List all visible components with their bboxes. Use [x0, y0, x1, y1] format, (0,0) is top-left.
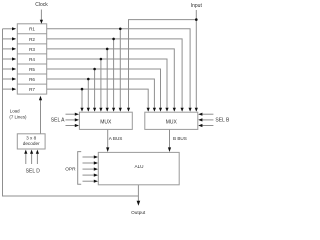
junction node R3/MUXA — [106, 48, 109, 51]
arrowhead B BUS into ALU — [168, 147, 171, 152]
wire register R4 input — [3, 58, 13, 60]
wire R4 branch to MUX A — [100, 59, 102, 111]
svg-text:R5: R5 — [29, 67, 35, 72]
junction node R1/MUXA — [119, 28, 122, 31]
wire register R3 input — [3, 48, 13, 50]
wire Input branch to MUX A — [129, 20, 197, 111]
junction node R6/MUXA — [87, 78, 90, 81]
wire R2 branch to MUX A — [113, 39, 115, 111]
svg-text:Load: Load — [10, 109, 20, 114]
wire R4 output to MUX B — [47, 59, 167, 111]
junction node R4/MUXA — [100, 58, 103, 61]
wire register R5 input — [3, 68, 13, 70]
wire decoder to register R7 load — [40, 100, 42, 134]
wire register R1 input — [3, 28, 13, 30]
arrowhead Output — [137, 201, 141, 206]
svg-text:R7: R7 — [29, 87, 35, 92]
wire R6 output to MUX B — [47, 79, 155, 111]
svg-text:R4: R4 — [29, 57, 35, 62]
wire R3 output to MUX B — [47, 49, 175, 111]
svg-text:SEL D: SEL D — [26, 168, 41, 174]
wire R5 branch to MUX A — [94, 69, 96, 111]
svg-text:B BUS: B BUS — [173, 136, 187, 141]
svg-text:MUX: MUX — [100, 119, 112, 125]
junction node R7/MUXA — [81, 88, 84, 91]
wire register R6 input — [3, 78, 13, 80]
wire SEL D lines — [25, 153, 27, 164]
3x8 decoder box U4 — [17, 134, 45, 149]
wire R5 output to MUX B — [47, 69, 161, 111]
MUX A box U1 — [79, 112, 132, 129]
svg-text:Input: Input — [191, 3, 203, 9]
junction node Input branch — [195, 18, 198, 21]
wire R3 branch to MUX A — [106, 49, 108, 111]
svg-text:3 x 8: 3 x 8 — [26, 135, 37, 140]
svg-text:ALU: ALU — [134, 164, 144, 169]
svg-text:R6: R6 — [29, 77, 35, 82]
arrowheads SEL B into MUX B — [198, 113, 202, 116]
ALU box U3 — [98, 152, 179, 184]
OPR bracket — [78, 152, 82, 185]
wire clock line — [40, 10, 42, 21]
register file box R1-R7 — [17, 24, 46, 94]
wire A BUS — [107, 129, 109, 148]
wire ALU output — [137, 185, 139, 201]
wire R1 branch to MUX A — [119, 29, 121, 111]
wire SEL A lines — [66, 113, 77, 115]
wire left feedback bus — [3, 29, 139, 196]
wire OPR lines — [83, 156, 96, 158]
svg-text:SEL B: SEL B — [215, 118, 230, 124]
junction node R2/MUXA — [112, 38, 115, 41]
svg-text:SEL A: SEL A — [51, 118, 65, 124]
MUX B box U2 — [145, 112, 198, 129]
svg-text:Clock: Clock — [35, 2, 48, 8]
svg-text:MUX: MUX — [166, 119, 178, 125]
wire register R7 input — [3, 88, 13, 90]
arrowheads into MUX B top — [147, 108, 150, 112]
svg-text:decoder: decoder — [23, 141, 40, 146]
wire B BUS — [169, 129, 171, 148]
wire register R2 input — [3, 38, 13, 40]
wire external Input line to MUX B — [195, 10, 197, 111]
arrowhead clock into register file — [40, 20, 43, 24]
arrowheads OPR into ALU — [94, 155, 98, 158]
svg-text:R3: R3 — [29, 47, 35, 52]
arrowheads register inputs — [12, 27, 16, 30]
wire SEL B lines — [201, 113, 213, 115]
svg-text:(7 Lines): (7 Lines) — [9, 114, 27, 119]
arrowheads SEL A into MUX A — [75, 113, 79, 116]
arrowheads into MUX A top — [80, 108, 83, 112]
wire R7 output to MUX B — [47, 89, 149, 111]
arrowheads SEL D into decoder — [24, 150, 27, 154]
wire R6 branch to MUX A — [87, 79, 89, 111]
wire R2 output to MUX B — [47, 39, 182, 111]
svg-text:R2: R2 — [29, 37, 35, 42]
svg-text:OPR: OPR — [65, 167, 76, 173]
wire R1 output to MUX B — [47, 29, 190, 111]
svg-text:Output: Output — [131, 210, 146, 215]
svg-text:A BUS: A BUS — [109, 136, 123, 141]
junction node R5/MUXA — [93, 68, 96, 71]
svg-text:R1: R1 — [29, 27, 35, 32]
arrowhead decoder load into register file — [39, 96, 42, 100]
wire R7 branch to MUX A — [81, 89, 83, 111]
arrowhead A BUS into ALU — [106, 147, 109, 152]
